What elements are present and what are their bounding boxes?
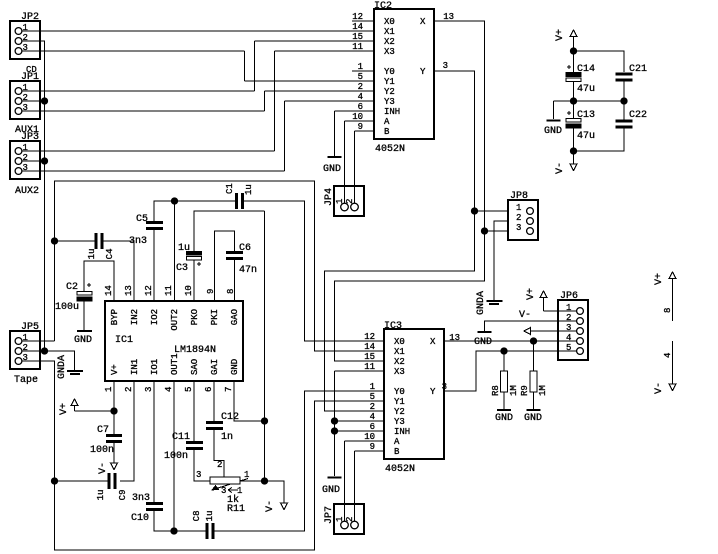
wire JP2.3 row51 to V1 [22, 50, 245, 52]
svg-text:C5: C5 [136, 214, 148, 225]
svg-text:GND: GND [524, 413, 542, 424]
junction row421 x264 [262, 418, 268, 424]
svg-text:7: 7 [224, 387, 234, 392]
svg-text:4: 4 [358, 92, 363, 102]
wire JP3.2 stub [22, 160, 45, 162]
svg-text:JP1: JP1 [21, 72, 39, 83]
wire JP6.2 to GND [485, 321, 577, 331]
svg-text:2: 2 [370, 402, 375, 412]
wire JP8.1 stub [475, 210, 509, 212]
supply V- top right [570, 164, 577, 171]
wire IC2 X output to JP8.3 and IC3 X2 [335, 21, 485, 361]
junction row201 pin11 [172, 198, 178, 204]
svg-text:AUX2: AUX2 [15, 186, 39, 197]
capacitor C3 1u polarized [187, 252, 202, 261]
wire V2 x254 [254, 41, 256, 91]
supply V- far right [669, 384, 676, 391]
svg-text:GAI: GAI [210, 359, 220, 375]
connector JP5 [10, 331, 40, 369]
svg-text:Y2: Y2 [394, 407, 405, 417]
arrow V- at JP6.3 [524, 328, 531, 335]
svg-text:1: 1 [335, 517, 345, 522]
svg-text:1M: 1M [509, 385, 519, 396]
wire JP3.3 row171 to V5 [22, 170, 285, 172]
wire IC1 pin4 OUT1 [173, 381, 175, 531]
wire IC1 pin10 with C3 [194, 211, 265, 301]
svg-text:12: 12 [364, 332, 375, 342]
svg-text:1: 1 [104, 387, 114, 392]
svg-text:Y2: Y2 [384, 87, 395, 97]
ground GNDA at JP8 [487, 300, 503, 302]
svg-text:C2: C2 [66, 282, 78, 293]
svg-text:4: 4 [663, 353, 673, 358]
wire V5 x284 [284, 101, 286, 171]
wire JP2.1 to IC2 X1 row31 [22, 30, 374, 32]
svg-text:V-: V- [98, 462, 109, 474]
junction JP1.2 [42, 98, 48, 104]
plus C3 [197, 262, 201, 266]
wire C12 to R11 wiper [214, 429, 224, 477]
wire pin1 to C7 [113, 411, 115, 434]
supply V+ at IC1 [75, 406, 115, 411]
svg-text:C4: C4 [105, 249, 115, 260]
svg-text:V-: V- [519, 310, 531, 321]
svg-text:X0: X0 [394, 337, 405, 347]
capacitor C1 1u [237, 193, 243, 209]
svg-text:JP2: JP2 [21, 12, 39, 23]
pin numbers IC1 bottom [104, 387, 234, 392]
wire JP6.3 with arrow [530, 330, 577, 332]
connector JP8 [508, 200, 538, 240]
svg-text:C21: C21 [629, 64, 647, 75]
ground GND below IC3 [328, 477, 342, 479]
svg-text:15: 15 [364, 352, 375, 362]
svg-text:15: 15 [352, 32, 363, 42]
svg-text:1: 1 [244, 470, 249, 480]
svg-text:3n3: 3n3 [132, 493, 150, 504]
wire IC3 B to JP7.2 [355, 451, 385, 522]
svg-text:11: 11 [352, 42, 363, 52]
svg-text:10: 10 [184, 285, 194, 296]
svg-text:SAO: SAO [190, 359, 200, 375]
svg-text:C22: C22 [629, 110, 647, 121]
svg-text:IO1: IO1 [150, 359, 160, 375]
wire IC2 B to JP4.2 [355, 131, 375, 204]
plus C2 [87, 283, 91, 287]
wire ground bus pin2s x44 [22, 41, 45, 351]
wire GND net x334 to IC3 X3 Y3 INH [335, 371, 385, 476]
svg-text:14: 14 [352, 22, 363, 32]
wire IC2 X0 stub [352, 20, 374, 22]
junction JP3.2 [42, 158, 48, 164]
wire IC3 Y to JP6.5 [444, 351, 577, 391]
svg-text:2: 2 [516, 213, 521, 223]
svg-text:GND: GND [544, 126, 562, 137]
svg-text:X0: X0 [384, 17, 395, 27]
svg-text:GNDA: GNDA [476, 291, 487, 315]
svg-text:R11: R11 [227, 504, 245, 515]
svg-text:IO2: IO2 [150, 309, 160, 325]
wire JP5.2 stub [22, 350, 45, 352]
wire JP5.3 down riser and bottom row to IC3 Y1 [22, 361, 384, 550]
wire IC2 INH to GND [335, 111, 375, 156]
svg-text:3: 3 [516, 223, 521, 233]
svg-text:JP8: JP8 [510, 191, 528, 202]
pin numbers IC2 [352, 12, 454, 132]
wire IC1 pin6 GAI to C12 [213, 381, 215, 421]
svg-text:100n: 100n [164, 451, 188, 462]
connector JP6 [558, 300, 588, 360]
supply V+ top right [573, 37, 575, 51]
svg-text:JP4: JP4 [324, 188, 335, 206]
svg-text:IC2: IC2 [374, 1, 392, 12]
svg-text:Y1: Y1 [384, 77, 395, 87]
svg-text:X3: X3 [394, 367, 405, 377]
wire row81 to IC2 Y1 [245, 80, 375, 82]
svg-text:47u: 47u [577, 84, 595, 95]
svg-text:B: B [384, 127, 390, 137]
svg-text:14: 14 [364, 342, 375, 352]
wire IC1 pin11 [174, 201, 176, 301]
svg-text:JP6: JP6 [560, 291, 578, 302]
svg-text:Y1: Y1 [394, 397, 405, 407]
wire C1 to IC3 X0 [243, 201, 385, 341]
resistor R9 1M [530, 341, 537, 409]
svg-text:PKI: PKI [210, 309, 220, 325]
svg-text:JP7: JP7 [324, 506, 335, 524]
svg-text:INH: INH [384, 107, 400, 117]
wire C8 to IC3 Y0 [214, 391, 384, 531]
svg-text:2: 2 [124, 387, 134, 392]
supply V- below C7 [111, 463, 118, 470]
svg-text:13: 13 [124, 285, 134, 296]
svg-text:1u: 1u [87, 249, 97, 260]
capacitor C5 3n3 [146, 223, 163, 229]
svg-text:A: A [384, 117, 390, 127]
svg-text:V-: V- [654, 382, 665, 394]
svg-text:47u: 47u [577, 131, 595, 142]
svg-text:1u: 1u [244, 184, 254, 195]
svg-text:IC3: IC3 [384, 321, 402, 332]
svg-text:2: 2 [217, 460, 222, 470]
svg-text:5: 5 [358, 72, 363, 82]
svg-text:V+: V+ [526, 288, 537, 300]
junction V+ pin1 [111, 408, 117, 414]
svg-text:V+: V+ [555, 29, 566, 41]
junction Y at JP8.1 [472, 208, 478, 214]
junction R9 top [531, 338, 537, 344]
pin numbers IC1 top [104, 285, 236, 296]
wire mid node top right [554, 81, 625, 120]
svg-text:X1: X1 [394, 347, 405, 357]
IC IC3 4052N [384, 329, 444, 459]
ground GND at IC2 INH [328, 156, 342, 158]
wire IC1 pin9 to C6 [215, 231, 235, 301]
wire JP8.2 to GNDA [494, 221, 508, 300]
svg-text:C1: C1 [225, 183, 235, 194]
svg-text:V+: V+ [110, 364, 120, 375]
svg-text:100u: 100u [55, 302, 79, 313]
svg-text:V+: V+ [59, 403, 70, 415]
capacitor C14 47u [566, 73, 581, 82]
ground GND at C2 [77, 330, 92, 332]
svg-text:4: 4 [566, 333, 571, 343]
svg-text:C8: C8 [192, 511, 202, 522]
svg-text:GND: GND [474, 337, 492, 348]
svg-text:2: 2 [358, 82, 363, 92]
svg-text:4052N: 4052N [385, 464, 415, 475]
wire IC1 pin14 BYP [84, 261, 114, 301]
svg-text:Y: Y [420, 67, 426, 77]
wire IC2 Y0 stub [352, 70, 374, 72]
capacitor C11 100n [186, 443, 203, 449]
junction top right row51 [571, 48, 577, 54]
svg-text:47n: 47n [239, 265, 257, 276]
wire IC1 pin3 IO1 with C10 [154, 381, 174, 531]
wire C7 to V- [113, 443, 115, 463]
supply V+ far right pin8 [672, 279, 674, 321]
junction row421 x334 [332, 418, 338, 424]
svg-text:8: 8 [663, 308, 673, 313]
svg-text:6: 6 [204, 387, 214, 392]
wire row51 to IC2 X3 [275, 50, 375, 52]
wire V4 x264 [264, 91, 266, 111]
wire C3 net riser x264 [264, 211, 266, 481]
IC IC1 LM1894N [105, 301, 243, 381]
wire IC3 A to JP7.1 [345, 441, 385, 522]
svg-text:X2: X2 [394, 357, 405, 367]
svg-text:4: 4 [164, 387, 174, 392]
capacitor C21 [616, 74, 633, 80]
svg-text:IN2: IN2 [130, 309, 140, 325]
svg-text:C9: C9 [118, 490, 128, 501]
wire V+ node to caps [574, 51, 625, 72]
svg-text:1u: 1u [96, 490, 106, 501]
junction row151 top right [571, 148, 577, 154]
svg-text:X3: X3 [384, 47, 395, 57]
supply V- bottom middle [281, 503, 288, 510]
pin labels JP6 [566, 303, 571, 353]
pin names IC1 top [110, 309, 240, 331]
svg-text:C7: C7 [97, 425, 109, 436]
svg-text:JP3: JP3 [21, 132, 39, 143]
pin names IC2 [384, 17, 426, 137]
junction JP5.2 [42, 348, 48, 354]
svg-text:GND: GND [323, 164, 341, 175]
connector JP4 [334, 186, 364, 216]
junction R8 top [501, 348, 507, 354]
junction row431 x334 [332, 428, 338, 434]
svg-text:1: 1 [370, 382, 375, 392]
svg-text:14: 14 [104, 285, 114, 296]
ground GND at JP6.2 [478, 331, 492, 333]
ground GND at R9 [527, 409, 541, 411]
junction X at JP8.3 [482, 228, 488, 234]
wire row41 to IC2 X2 [255, 40, 375, 42]
capacitor C22 [616, 121, 633, 127]
svg-text:C14: C14 [577, 64, 595, 75]
wire row531 to C8 [174, 530, 206, 532]
wire IC1 pin7 GND to V- node [234, 381, 265, 421]
svg-text:Y: Y [430, 387, 436, 397]
wire IC1 pin13 [55, 181, 385, 351]
arrow glyph R11 [228, 488, 238, 493]
svg-text:GAO: GAO [230, 309, 240, 325]
wire IC2 Y output to JP8.1 and IC3 Y2 [325, 71, 475, 411]
svg-text:5: 5 [370, 392, 375, 402]
svg-text:JP5: JP5 [21, 322, 39, 333]
junction mid row101 right [621, 98, 627, 104]
wire JP1.1 row91 to V2 [22, 90, 255, 92]
svg-text:11: 11 [164, 285, 174, 296]
svg-text:C10: C10 [131, 513, 149, 524]
capacitor C2 100u [77, 292, 92, 302]
wire V3 x274 [274, 51, 276, 151]
wire C2 to GND [83, 301, 85, 330]
svg-text:GNDA: GNDA [57, 355, 68, 379]
svg-text:V-: V- [265, 500, 276, 512]
wire IC3 X to JP6.4 [444, 340, 577, 342]
svg-text:GND: GND [74, 335, 92, 346]
svg-text:LM1894N: LM1894N [174, 345, 216, 356]
svg-text:C13: C13 [577, 110, 595, 121]
capacitor C13 47u [566, 119, 581, 129]
svg-text:5: 5 [184, 387, 194, 392]
wire IC1 pin2 IN1 to C9 row [120, 381, 134, 481]
wire JP5.1 to x54 riser [22, 241, 55, 341]
svg-text:12: 12 [144, 285, 154, 296]
svg-text:C6: C6 [239, 243, 251, 254]
svg-text:GND: GND [230, 359, 240, 375]
pin numbers IC3 [364, 332, 460, 452]
svg-text:1: 1 [335, 199, 345, 204]
svg-text:V+: V+ [654, 273, 665, 285]
wire row91 to IC2 Y2 [265, 90, 375, 92]
junction C4 tap [52, 238, 58, 244]
svg-text:IN1: IN1 [130, 359, 140, 375]
plus C13 [567, 111, 571, 115]
pin names IC1 bottom [110, 353, 240, 375]
svg-text:R8: R8 [491, 385, 501, 396]
svg-text:1M: 1M [538, 385, 548, 396]
wire IC1 pin1 V+ [113, 381, 115, 411]
wire JP1.3 row111 to V4 [22, 110, 265, 112]
pin names IC3 [394, 337, 436, 457]
svg-text:Y0: Y0 [394, 387, 405, 397]
svg-text:3n3: 3n3 [129, 236, 147, 247]
IC IC2 4052N [374, 9, 434, 139]
junction mid row101 left [571, 98, 577, 104]
svg-text:2: 2 [345, 199, 355, 204]
junction row481 x264 [262, 478, 268, 484]
svg-text:INH: INH [394, 427, 410, 437]
svg-text:X: X [420, 17, 426, 27]
svg-text:OUT1: OUT1 [170, 353, 180, 375]
wire V- branch [265, 481, 285, 503]
svg-text:1u: 1u [205, 511, 215, 522]
ground GND top right [547, 120, 561, 122]
svg-text:3: 3 [196, 470, 201, 480]
wire IC1 pin12 with C5 [154, 201, 236, 301]
wire bottom node top right [574, 128, 625, 164]
wire R11 pin1 to V- node [240, 480, 265, 482]
capacitor C12 1n [206, 423, 223, 429]
svg-text:GND: GND [322, 485, 340, 496]
svg-text:B: B [394, 447, 400, 457]
connector JP1 [10, 81, 40, 119]
svg-text:3: 3 [221, 486, 226, 496]
svg-text:GND: GND [495, 413, 513, 424]
connector JP7 [334, 504, 364, 534]
connector JP2 [10, 21, 40, 59]
capacitor C10 3n3 [146, 504, 163, 510]
svg-text:1: 1 [516, 203, 521, 213]
junction row531 pin4 [171, 528, 177, 534]
svg-text:Y0: Y0 [384, 67, 395, 77]
ground GNDA at JP5 [67, 370, 83, 372]
wire pin4 far right [672, 341, 674, 384]
wire JP5.2 to GNDA [45, 351, 75, 370]
wire JP3.1 row151 to V3 [22, 150, 275, 152]
svg-text:Y3: Y3 [394, 417, 405, 427]
supply V+ at JP6.1 [544, 298, 577, 311]
svg-text:Tape: Tape [14, 375, 38, 386]
svg-text:100n: 100n [90, 445, 114, 456]
wire IC2 A to JP4.1 [345, 121, 375, 204]
svg-text:OUT2: OUT2 [170, 309, 180, 331]
svg-text:2: 2 [345, 517, 355, 522]
capacitor C8 1u [207, 523, 213, 539]
svg-text:4052N: 4052N [375, 144, 405, 155]
capacitor C7 100n [106, 436, 122, 442]
svg-text:X1: X1 [384, 27, 395, 37]
wire C6 to IC1 pin8 [234, 260, 236, 301]
svg-text:C3: C3 [176, 263, 188, 274]
wire V1 x244 [244, 51, 246, 81]
wire JP1.2 stub [22, 100, 45, 102]
svg-text:BYP: BYP [110, 309, 120, 325]
svg-text:X: X [430, 337, 436, 347]
wire row101 to IC2 Y3 [285, 100, 375, 102]
capacitor C4 1u [96, 233, 102, 249]
resistor R8 1M [501, 351, 508, 409]
svg-text:1u: 1u [178, 243, 190, 254]
svg-text:C11: C11 [172, 432, 190, 443]
wire IC1 pin5 SAO with C11 [194, 381, 210, 481]
capacitor C6 47n [226, 253, 243, 259]
svg-text:PKO: PKO [190, 309, 200, 325]
wire JP8.3 stub [485, 230, 509, 232]
svg-text:X2: X2 [384, 37, 395, 47]
svg-text:V-: V- [555, 162, 566, 174]
svg-text:3: 3 [144, 387, 154, 392]
junction row481 x54 [52, 478, 58, 484]
trimmer R11 1k [210, 477, 248, 490]
svg-text:Y3: Y3 [384, 97, 395, 107]
svg-text:A: A [394, 437, 400, 447]
wire C9 to JP5.3 riser [55, 480, 109, 482]
svg-text:3: 3 [443, 61, 448, 71]
plus C14 [567, 65, 571, 69]
connector JP3 [10, 141, 40, 179]
svg-text:1n: 1n [221, 432, 233, 443]
svg-text:5: 5 [566, 343, 571, 353]
ground GND at R8 [497, 409, 511, 411]
svg-text:R9: R9 [520, 385, 530, 396]
capacitor C9 1u [109, 473, 115, 489]
svg-text:IC1: IC1 [115, 335, 133, 346]
